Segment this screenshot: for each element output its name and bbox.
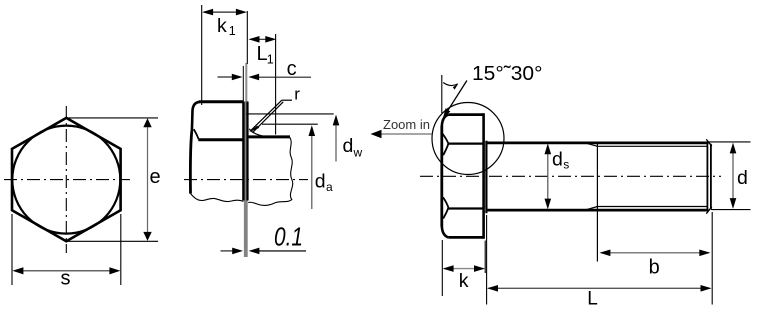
dimension e line — [147, 121, 149, 238]
dim c extension line — [242, 66, 244, 101]
dim L extension lines — [486, 215, 488, 305]
head top-left chamfer arc — [442, 115, 449, 127]
facet line — [198, 138, 243, 141]
leader r arrowhead — [249, 126, 259, 133]
dim d line — [732, 151, 734, 200]
head left edge lower — [190, 131, 191, 194]
hex head outline — [12, 118, 121, 241]
svg-text:L: L — [587, 289, 598, 310]
svg-text:1: 1 — [267, 53, 274, 67]
dim da extension line — [262, 123, 318, 125]
angle leader — [444, 81, 467, 117]
horizontal centerline — [4, 179, 130, 181]
facet chamfer arcs upper — [442, 134, 448, 156]
dim d extension lines — [708, 141, 751, 143]
svg-text:b: b — [649, 256, 660, 278]
dim k line — [444, 268, 484, 270]
dim dw arrow — [335, 124, 337, 162]
svg-text:k: k — [217, 15, 227, 37]
facet chamfer arc — [194, 129, 199, 139]
leader r diagonals — [251, 100, 283, 132]
svg-text:a: a — [326, 180, 333, 194]
angle arc — [443, 83, 458, 86]
end chamfer diagonals — [706, 139, 712, 213]
shank bottom edge — [486, 209, 708, 212]
head bottom-left chamfer arc — [442, 226, 449, 238]
facet chamfer arcs lower — [443, 197, 448, 218]
dim da arrow — [311, 135, 313, 209]
svg-text:1: 1 — [229, 24, 236, 38]
dimension s line — [15, 270, 118, 272]
thread start line — [596, 142, 598, 262]
head top edge — [449, 113, 484, 116]
svg-text:r: r — [294, 85, 300, 104]
head right face — [482, 113, 485, 239]
centerline middle view — [184, 179, 308, 181]
flatness 0.1 arrows — [221, 250, 234, 252]
svg-text:s: s — [563, 157, 569, 171]
facet line lower — [448, 207, 484, 209]
zoom-in arrow — [378, 133, 432, 135]
facet line upper — [448, 143, 484, 145]
head top edge — [199, 100, 244, 103]
washer face lip — [485, 141, 487, 214]
dim L1 line — [250, 38, 274, 40]
head left edge — [440, 126, 443, 226]
dim k extension lines — [441, 240, 443, 296]
washer datum line gray — [245, 63, 247, 102]
vertical centerline — [65, 106, 67, 253]
dim dw extension line — [246, 113, 334, 115]
washer bearing plane edge — [246, 102, 248, 201]
shank top edge — [248, 135, 290, 138]
svg-text:s: s — [61, 267, 71, 289]
dim c arrows — [218, 76, 234, 78]
dimension e extension lines — [66, 118, 158, 241]
svg-text:e: e — [150, 166, 161, 188]
head break line (wavy) — [191, 194, 244, 202]
fillet arc — [249, 129, 266, 137]
thread minor diameter lines — [597, 146, 707, 206]
shank break line (wavy) — [248, 138, 293, 206]
dim b line — [601, 252, 709, 254]
leader r shelf — [282, 99, 292, 101]
svg-text:d: d — [552, 148, 563, 170]
dimension s extension lines — [12, 214, 121, 285]
dim k1 line — [204, 11, 245, 13]
dim k1 extension lines — [201, 5, 203, 105]
head top-left chamfer arc — [192, 102, 200, 131]
angle extension line — [441, 75, 443, 113]
dim ds line — [547, 152, 549, 201]
svg-text:w: w — [353, 146, 363, 160]
head bottom edge — [449, 236, 484, 239]
svg-text:0.1: 0.1 — [274, 222, 303, 252]
svg-text:k: k — [459, 270, 469, 292]
washer face edge (head side) — [242, 102, 244, 201]
svg-text:c: c — [287, 58, 297, 80]
thread runout diagonals — [583, 142, 598, 211]
svg-text:d: d — [343, 135, 354, 157]
svg-text:15°˜30°: 15°˜30° — [472, 62, 543, 85]
zoom circle — [432, 103, 504, 175]
washer face circle — [12, 126, 120, 234]
centerline right view — [420, 175, 721, 177]
end face lines — [706, 143, 708, 209]
dim L1 extension line — [275, 34, 277, 135]
svg-text:d: d — [737, 167, 748, 189]
shank top edge — [486, 141, 708, 144]
dim L line — [489, 287, 711, 289]
svg-text:Zoom in: Zoom in — [383, 117, 430, 132]
svg-text:d: d — [315, 171, 326, 193]
